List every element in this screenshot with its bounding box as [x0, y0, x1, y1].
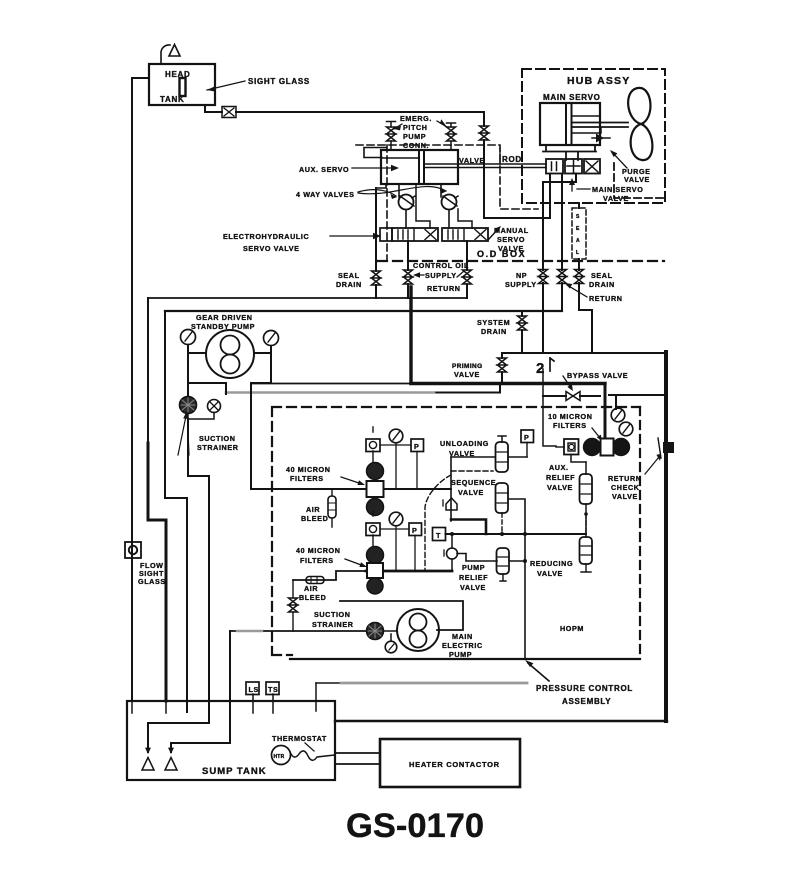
main electric pump [397, 609, 439, 651]
svg-text:DRAIN: DRAIN [481, 327, 507, 336]
label 40 MICRON FILTERS (upper) [286, 465, 365, 485]
svg-text:RETURN: RETURN [589, 294, 623, 303]
svg-text:10 MICRON: 10 MICRON [548, 412, 593, 421]
upper 40 micron filter [367, 463, 384, 516]
svg-text:HEATER CONTACTOR: HEATER CONTACTOR [409, 760, 500, 769]
standby pump right gauge [264, 331, 279, 354]
reducing valve [580, 537, 593, 572]
label AUX RELIEF VALVE [546, 463, 575, 492]
label SEQUENCE VALVE [451, 478, 496, 497]
label UNLOADING VALVE [440, 439, 489, 458]
unloading pilot drop line [450, 457, 452, 521]
10 micron filter gauges [611, 408, 633, 436]
svg-text:ROD: ROD [502, 155, 522, 164]
svg-text:E: E [576, 226, 580, 232]
svg-text:NP: NP [516, 271, 527, 280]
svg-text:SUPPLY: SUPPLY [505, 280, 537, 289]
label REDUCING VALVE [530, 559, 573, 578]
T box [433, 528, 446, 541]
svg-text:STRAINER: STRAINER [312, 620, 354, 629]
bold supply header [411, 382, 605, 385]
main pump suction line [230, 630, 366, 632]
svg-text:VALVE: VALVE [547, 483, 573, 492]
manual servo valve lever [488, 228, 499, 240]
O.D. box dashed boundary [356, 145, 538, 260]
svg-text:AUX. SERVO: AUX. SERVO [299, 165, 349, 174]
lower filter gauge [389, 512, 403, 571]
pressure control assembly dashed enclosure [272, 407, 640, 655]
wire main servo valve to control supply [484, 174, 550, 219]
svg-text:BLEED: BLEED [299, 593, 326, 602]
sump entry stubs [132, 683, 316, 713]
svg-text:O.D BOX: O.D BOX [477, 249, 526, 259]
svg-text:VALVE: VALVE [624, 175, 650, 184]
svg-text:ELECTRIC: ELECTRIC [442, 641, 483, 650]
svg-text:RETURN: RETURN [608, 474, 642, 483]
svg-text:LS: LS [249, 685, 259, 694]
svg-text:UNLOADING: UNLOADING [440, 439, 489, 448]
aux servo cylinder [364, 148, 458, 189]
pump relief feed wires [457, 554, 525, 562]
inner loop left wire [165, 311, 187, 712]
label 4 WAY VALVES [296, 187, 447, 199]
svg-text:SERVO: SERVO [497, 235, 525, 244]
label SIGHT GLASS [207, 77, 310, 91]
lower 40 micron filter pipe [293, 571, 366, 580]
svg-text:GEAR DRIVEN: GEAR DRIVEN [196, 313, 253, 322]
svg-text:PUMP: PUMP [403, 132, 426, 141]
main servo valve body [546, 159, 600, 174]
lower air bleed [306, 577, 324, 584]
upper air bleed [328, 489, 336, 527]
label ELECTROHYDRAULIC SERVO VALVE [223, 232, 381, 253]
label CONTROL OIL SUPPLY RETURN [413, 261, 469, 293]
wire NP supply from hub [543, 174, 576, 354]
svg-text:PITCH: PITCH [403, 123, 428, 132]
svg-text:AIR: AIR [306, 505, 320, 514]
label PRESSURE CONTROL ASSEMBLY [525, 660, 633, 706]
svg-text:ASSEMBLY: ASSEMBLY [562, 697, 611, 706]
svg-text:BYPASS VALVE: BYPASS VALVE [567, 371, 628, 380]
svg-text:P: P [524, 433, 529, 442]
svg-text:L: L [576, 250, 579, 256]
control oil supply wire [408, 241, 467, 298]
pump relief valve [497, 548, 510, 581]
outer loop top wire [148, 297, 467, 299]
svg-text:SEAL: SEAL [338, 271, 360, 280]
svg-text:DRAIN: DRAIN [589, 280, 615, 289]
svg-text:FILTERS: FILTERS [553, 421, 587, 430]
emergency pitch valve A [387, 127, 396, 141]
label SUCTION STRAINER (standby) [178, 411, 239, 455]
wire main servo valve return [561, 174, 563, 312]
svg-text:STANDBY PUMP: STANDBY PUMP [191, 322, 255, 331]
svg-text:SYSTEM: SYSTEM [477, 318, 510, 327]
main pump discharge enclosure [340, 601, 463, 630]
main pump gauge [383, 631, 397, 653]
wire drop to valve C and down to O.D. box [483, 112, 485, 218]
main servo cylinder neck [543, 145, 596, 160]
label PUMP RELIEF VALVE [459, 563, 488, 592]
svg-text:MAIN SERVO: MAIN SERVO [592, 185, 643, 194]
svg-text:HOPM: HOPM [560, 624, 584, 633]
standby pump suction/discharge wires [188, 353, 271, 489]
left seal drain wire [375, 188, 377, 298]
drain cock (boxed X circle) [188, 400, 221, 420]
label AIR BLEED (upper) [301, 505, 328, 523]
air bleed drain valve [289, 580, 298, 631]
mid pressure wire [446, 533, 587, 535]
main pump foot valve [165, 758, 177, 771]
svg-text:THERMOSTAT: THERMOSTAT [272, 734, 327, 743]
svg-text:P: P [414, 442, 419, 451]
control oil supply valve [404, 270, 413, 284]
electrohydraulic servo valve body 1 [392, 228, 438, 241]
left seal drain valve [372, 271, 381, 285]
purge valve symbol [592, 128, 610, 143]
label GEAR DRIVEN STANDBY PUMP [191, 313, 255, 331]
svg-text:STRAINER: STRAINER [197, 443, 239, 452]
upper 40 micron filter pipe [251, 488, 451, 490]
label NP SUPPLY [505, 271, 537, 289]
label MANUAL SERVO VALVE [494, 226, 529, 253]
label PURGE VALVE [610, 150, 651, 184]
lower 40 micron filter [367, 547, 384, 595]
label SEAL DRAIN (right) [589, 271, 615, 289]
priming valve [498, 358, 507, 372]
svg-text:SUPPLY: SUPPLY [425, 271, 457, 280]
sequence valve wires [508, 499, 525, 658]
wire right seal drain [579, 203, 592, 353]
unloading valve [496, 436, 509, 472]
wires sump to heater contactor [335, 753, 380, 764]
svg-text:ELECTROHYDRAULIC: ELECTROHYDRAULIC [223, 232, 309, 241]
svg-text:SUMP TANK: SUMP TANK [202, 766, 267, 777]
lower filter P box [380, 523, 422, 571]
wire 10 micron to aux relief [543, 369, 586, 462]
svg-text:MANUAL: MANUAL [494, 226, 529, 235]
svg-text:SIGHT GLASS: SIGHT GLASS [248, 77, 310, 86]
svg-text:FILTERS: FILTERS [300, 556, 334, 565]
svg-text:HUB ASSY: HUB ASSY [567, 75, 630, 87]
main servo piston rod to propeller [572, 123, 629, 128]
label THERMOSTAT [272, 734, 327, 751]
svg-text:DRAIN: DRAIN [336, 280, 362, 289]
label SEAL DRAIN (left) [336, 271, 362, 289]
svg-text:PRESSURE CONTROL: PRESSURE CONTROL [536, 684, 633, 693]
label 10 MICRON FILTERS [548, 412, 602, 441]
label SUCTION STRAINER (main) [312, 610, 354, 629]
bold control oil supply line down [409, 287, 412, 383]
label PRIMING VALVE [452, 363, 483, 379]
wire head tank to flow sight glass (left drop) [132, 78, 149, 700]
svg-text:FILTERS: FILTERS [290, 474, 324, 483]
svg-text:T: T [436, 531, 441, 540]
svg-text:HTR: HTR [274, 754, 285, 760]
wire valve A cap and stem [387, 122, 396, 151]
svg-text:S: S [576, 214, 580, 220]
system drain wire [521, 311, 523, 353]
svg-text:VALVE: VALVE [458, 488, 484, 497]
svg-text:EMERG.: EMERG. [400, 114, 432, 123]
label SYSTEM DRAIN [477, 318, 510, 336]
shutoff valve (boxed X) [222, 107, 236, 118]
svg-text:A: A [576, 238, 580, 244]
hub assembly dashed enclosure [522, 69, 665, 203]
svg-text:VALVE: VALVE [537, 569, 563, 578]
svg-text:GS-0170: GS-0170 [346, 807, 484, 845]
svg-text:MAIN SERVO: MAIN SERVO [543, 93, 601, 102]
standby foot valve [142, 758, 154, 771]
pressure control dashed right edge [639, 407, 641, 658]
label AIR BLEED (lower) [299, 584, 326, 602]
junction dots [450, 532, 454, 536]
sequence valve [496, 483, 509, 513]
svg-text:BLEED: BLEED [301, 514, 328, 523]
standby pump left gauge [181, 330, 196, 354]
svg-text:SUCTION: SUCTION [199, 434, 236, 443]
10 micron vent box [556, 439, 579, 455]
head tank [149, 64, 215, 105]
valve rod from aux servo [424, 164, 546, 168]
bypass valve [566, 392, 580, 401]
svg-text:PUMP: PUMP [449, 650, 472, 659]
gray drain line [226, 391, 434, 394]
upper filter P box [380, 439, 424, 489]
label BYPASS VALVE [563, 371, 628, 391]
hub inner dashed boundary [614, 163, 665, 198]
bold left segment [148, 443, 166, 701]
upper filter vent box [366, 427, 380, 462]
svg-text:RETURN: RETURN [427, 284, 461, 293]
4-way valve 2 [441, 184, 458, 228]
10 micron filter assembly [584, 439, 630, 456]
return check valve on right line [656, 438, 674, 461]
return valve (hub return) [558, 270, 567, 284]
svg-text:CONTROL OIL: CONTROL OIL [413, 261, 469, 270]
label MAIN ELECTRIC PUMP [442, 632, 483, 659]
head tank sight glass [180, 78, 186, 96]
label 40 MICRON FILTERS (lower) [296, 546, 367, 567]
svg-text:SERVO VALVE: SERVO VALVE [243, 244, 300, 253]
label AUX. SERVO [299, 165, 399, 174]
bold supply drop to 10 micron filters [604, 384, 607, 441]
suction line entry to sump [171, 631, 230, 752]
standby suction foot line in sump [148, 723, 209, 752]
thermostat heater HTR [272, 746, 291, 765]
control oil return valve [463, 270, 472, 284]
main servo cylinder [540, 103, 600, 145]
outer loop left wire [147, 298, 149, 444]
bold unloading drain elbow [451, 520, 486, 535]
outer loop bottom wire [335, 720, 667, 722]
label EMERG PITCH PUMP CONN [394, 114, 447, 150]
svg-text:AIR: AIR [304, 584, 318, 593]
svg-text:RELIEF: RELIEF [459, 573, 488, 582]
heater return line (gray) [316, 682, 342, 684]
priming valve wire [433, 353, 502, 393]
bypass line [543, 395, 664, 409]
svg-text:40 MICRON: 40 MICRON [286, 465, 331, 474]
sequence pilot dashed wires [451, 470, 493, 472]
svg-text:VALVE: VALVE [460, 583, 486, 592]
svg-text:AUX.: AUX. [549, 463, 569, 472]
pressure control bottom wire [290, 658, 640, 660]
seal gland dashed box [572, 208, 586, 259]
level switch LS [246, 682, 259, 695]
pump header wire [502, 352, 666, 354]
check circle symbol [444, 548, 458, 559]
electrohydraulic servo valve S-port box [380, 228, 392, 241]
suction pipe with step to sump [188, 419, 209, 723]
valve C [480, 126, 489, 140]
wire valve B cap and stem [447, 123, 456, 150]
wire head tank bottom to shutoff valve [205, 105, 222, 112]
svg-text:GLASS: GLASS [138, 577, 166, 586]
svg-text:SUCTION: SUCTION [314, 610, 351, 619]
propeller [628, 88, 652, 160]
svg-text:VALVE: VALVE [454, 370, 480, 379]
svg-text:PUMP: PUMP [462, 563, 485, 572]
head tank breather [161, 45, 180, 65]
heater contactor [380, 739, 520, 787]
flow sight glass [125, 542, 166, 586]
sump tank [127, 701, 335, 780]
aux relief valve [580, 462, 593, 537]
main suction strainer [367, 623, 384, 640]
svg-text:RELIEF: RELIEF [546, 473, 575, 482]
svg-text:TS: TS [268, 685, 278, 694]
emergency pitch valve B [447, 127, 456, 141]
svg-text:4 WAY VALVES: 4 WAY VALVES [296, 190, 354, 199]
svg-text:SEQUENCE: SEQUENCE [451, 478, 496, 487]
suction strainer (standby) [180, 397, 197, 414]
label MAIN SERVO VALVE [569, 178, 643, 203]
temperature switch TS [266, 682, 279, 695]
wire sight-glass valve to emergency pitch pump drops [236, 111, 484, 113]
unloading valve wires [451, 456, 527, 458]
label ROD [500, 148, 522, 164]
electrohydraulic servo valve body 2 [442, 228, 488, 241]
O.D. box bottom dashed boundary [378, 260, 664, 262]
pilot drop to check circle [451, 534, 453, 571]
lower filter vent box [366, 511, 380, 546]
system drain valve [518, 316, 527, 330]
wires 4-way valves to servo valve [416, 184, 472, 228]
svg-text:REDUCING: REDUCING [530, 559, 573, 568]
flow indicator symbol [536, 358, 554, 377]
pilot check symbol [443, 498, 457, 510]
thin supply header left [251, 383, 411, 385]
svg-text:SEAL: SEAL [591, 271, 613, 280]
label RETURN (seal) [565, 283, 623, 303]
svg-text:MAIN: MAIN [452, 632, 473, 641]
right main return line (thick) [664, 352, 668, 721]
upper filter gauge [389, 429, 403, 489]
inner loop top wire [165, 310, 562, 312]
P box (unloading pilot) [521, 430, 534, 457]
svg-text:CHECK: CHECK [611, 483, 640, 492]
svg-text:P: P [412, 526, 417, 535]
NP supply valve [539, 270, 548, 284]
svg-text:40 MICRON: 40 MICRON [296, 546, 341, 555]
label RETURN CHECK VALVE [608, 457, 659, 501]
svg-text:PRIMING: PRIMING [452, 363, 483, 370]
4-way valve 1 [399, 184, 416, 228]
standby pump [206, 330, 254, 378]
thermostat capillary squiggle [290, 751, 335, 760]
svg-text:VALVE: VALVE [612, 492, 638, 501]
right seal drain valve [575, 270, 584, 284]
